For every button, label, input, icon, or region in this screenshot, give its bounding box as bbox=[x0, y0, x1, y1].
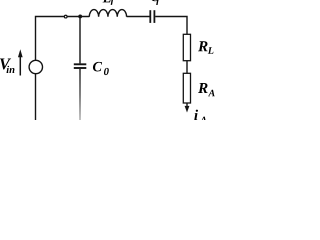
wire middle vertical: dot to C0 bbox=[79, 17, 81, 64]
wire R_A to current arrow bbox=[186, 103, 188, 107]
capacitor C0 top plate bbox=[74, 63, 87, 65]
label R_A bbox=[198, 83, 208, 93]
capacitor C0 bottom plate bbox=[74, 67, 87, 69]
label V_in bbox=[0, 59, 11, 70]
wire left vertical lower bbox=[35, 74, 37, 120]
wire between R_L and R_A bbox=[186, 61, 188, 74]
voltage source V1 circle bbox=[29, 60, 42, 73]
label C_0 bbox=[93, 62, 102, 72]
arrow for V_in polarity (up) bbox=[19, 56, 21, 76]
inductor L_f coil bbox=[89, 10, 126, 17]
label R_L bbox=[198, 41, 208, 51]
current arrow i (down) bbox=[185, 106, 190, 113]
label L_f (cut at top) bbox=[103, 0, 111, 2]
capacitor C_f right plate bbox=[153, 10, 155, 23]
wire middle vertical: C0 to bottom edge (fading) bbox=[79, 69, 81, 120]
label i_A (subscript cut at bottom) bbox=[194, 110, 198, 120]
wire top horizontal: inductor to C_f bbox=[127, 16, 150, 18]
label C_f (cut at top) bbox=[151, 0, 160, 1]
resistor R_A box bbox=[183, 73, 190, 103]
resistor R_L box bbox=[183, 34, 190, 60]
wire top horizontal: corner to inductor bbox=[36, 17, 90, 61]
node open terminal bbox=[64, 15, 67, 18]
junction dot bbox=[78, 14, 82, 18]
wire top horizontal: C_f to right corner, down to R_L bbox=[155, 17, 187, 35]
capacitor C_f left plate bbox=[149, 10, 151, 23]
